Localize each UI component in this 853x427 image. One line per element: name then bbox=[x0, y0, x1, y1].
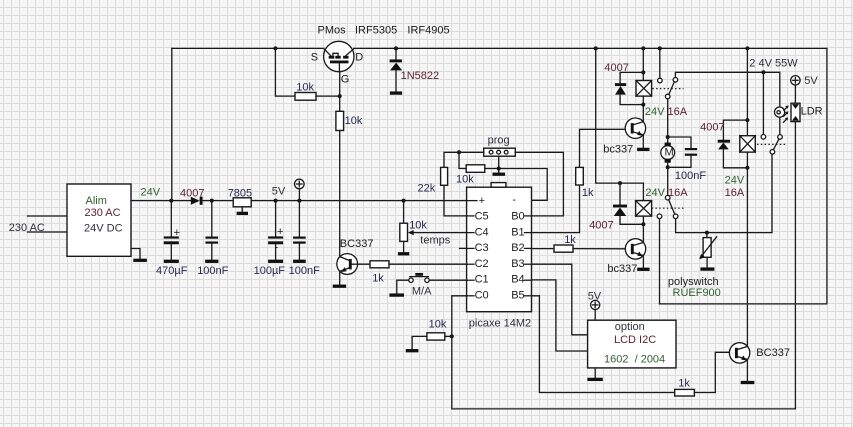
svg-text:BC337: BC337 bbox=[340, 238, 374, 250]
node relay2 rail junction bbox=[745, 46, 749, 50]
node coil1 bottom junction bbox=[641, 103, 645, 107]
node 4007 relay1 branch bbox=[641, 70, 645, 74]
svg-text:Alim: Alim bbox=[86, 195, 107, 207]
wire B5 to 1k bottom bbox=[532, 296, 675, 393]
svg-text:-: - bbox=[512, 194, 516, 206]
svg-text:5V: 5V bbox=[588, 290, 602, 302]
wire pin stubs inside picaxe bbox=[467, 215, 474, 217]
svg-text:IRF4905: IRF4905 bbox=[407, 25, 449, 37]
wire rail down to coil2 bbox=[746, 48, 748, 135]
wire 230AC input bottom bbox=[28, 231, 68, 233]
node lamp branch bbox=[761, 70, 765, 74]
svg-text:C5: C5 bbox=[475, 211, 489, 223]
svg-text:temps: temps bbox=[420, 234, 450, 246]
svg-text:5V: 5V bbox=[272, 186, 286, 198]
svg-text:24V: 24V bbox=[725, 174, 745, 186]
wire lamp feed corner bbox=[779, 72, 781, 107]
svg-text:S: S bbox=[311, 51, 318, 63]
wire B2 to 1k bbox=[532, 248, 555, 250]
relay K1 coil bbox=[636, 81, 652, 97]
relay K2 coil bbox=[740, 136, 756, 152]
svg-text:10k: 10k bbox=[456, 173, 474, 185]
svg-text:10k: 10k bbox=[296, 82, 314, 94]
resistor 10k gate pulldown vertical bbox=[336, 111, 344, 130]
resistor 10k serial-in bbox=[466, 165, 485, 173]
node motor top bbox=[666, 135, 670, 139]
wire prog middle pin ground stub bbox=[498, 156, 500, 172]
svg-text:RUEF900: RUEF900 bbox=[673, 287, 721, 299]
svg-text:+: + bbox=[174, 227, 180, 239]
wire relay3 NO down and right to relay2 pole bbox=[676, 154, 772, 233]
capacitor C 100uF bbox=[275, 201, 277, 237]
node coil2 bottom junction bbox=[745, 166, 749, 170]
wire 10k to minus pin bbox=[485, 169, 547, 201]
wire M/A left to ground bbox=[397, 280, 409, 293]
svg-text:D: D bbox=[355, 51, 363, 63]
wire 1k to BC337 no3 base bbox=[694, 352, 729, 392]
svg-text:10k: 10k bbox=[429, 318, 447, 330]
svg-text:bc337: bc337 bbox=[607, 263, 637, 275]
wire BC337 no3 emitter ground bbox=[746, 360, 748, 381]
ground BC337 emitter bbox=[333, 285, 346, 288]
wire prog left pin to 22k bbox=[444, 152, 484, 167]
svg-text:IRF5305: IRF5305 bbox=[355, 25, 397, 37]
wire B4 to LCD bbox=[532, 280, 588, 351]
Alim power supply box bbox=[67, 184, 131, 256]
wire 1k to bc337 no2 base bbox=[573, 248, 625, 250]
svg-text:C3: C3 bbox=[475, 242, 489, 254]
ground polyswitch bbox=[700, 267, 714, 270]
wire rail to relay1 contact A bbox=[659, 48, 661, 78]
ground pot bbox=[398, 252, 409, 255]
transistor BC337 no3 bbox=[729, 343, 749, 363]
wire 10k to gate node bbox=[316, 95, 340, 97]
svg-text:1k: 1k bbox=[372, 273, 384, 285]
svg-text:LDR: LDR bbox=[801, 105, 823, 117]
svg-text:C0: C0 bbox=[475, 289, 489, 301]
wire lamp to relay2 NO bbox=[779, 117, 781, 134]
node 5V supply symbol near 7805 bbox=[298, 189, 300, 201]
svg-text:1k: 1k bbox=[678, 377, 690, 389]
resistor 1k BC337 no3 bbox=[675, 389, 695, 396]
node 1N5822 junction on rail bbox=[394, 46, 398, 50]
svg-text:B5: B5 bbox=[511, 289, 524, 301]
resistor 1k relay3 driver bbox=[554, 245, 573, 252]
wire 24V rail from Alim to 4007 bbox=[131, 200, 191, 202]
svg-text:G: G bbox=[341, 73, 350, 85]
wire M/A right to picaxe C1 bbox=[429, 279, 466, 281]
wire BC337 emitter to ground bbox=[339, 271, 341, 284]
IC LCD I2C option box bbox=[588, 320, 676, 368]
svg-text:24V 16A: 24V 16A bbox=[645, 106, 688, 118]
ground bc337 no1 bbox=[637, 148, 649, 151]
node 4007 relay3 branch bbox=[618, 181, 622, 185]
wire top rail PMOS drain to right corner bbox=[354, 47, 827, 49]
wire rail 4007 to 7805 bbox=[203, 200, 234, 202]
relay K2 switch bbox=[761, 135, 766, 140]
ground 100uF bbox=[268, 260, 283, 263]
svg-text:M: M bbox=[665, 147, 674, 159]
diode 4007 relay3 bbox=[619, 183, 621, 204]
ground 100nF1 bbox=[205, 260, 218, 263]
wire relay1 NO contact up right bbox=[675, 72, 779, 77]
wire right edge drop bbox=[660, 48, 827, 304]
svg-text:option: option bbox=[615, 321, 645, 333]
ground 470uF bbox=[164, 260, 179, 263]
ground 7805 bbox=[237, 212, 248, 215]
transistor bc337 no1 bbox=[625, 118, 645, 138]
node gate junction bbox=[338, 94, 342, 98]
wire rail down to relay3 bbox=[596, 48, 644, 200]
wire PMOS gate to node bbox=[339, 72, 341, 96]
svg-text:4007: 4007 bbox=[180, 188, 204, 200]
wire 7805 ground stub bbox=[241, 207, 243, 212]
svg-text:C1: C1 bbox=[475, 274, 489, 286]
svg-text:1k: 1k bbox=[582, 187, 594, 199]
node junction 100uF bbox=[274, 199, 278, 203]
svg-text:4007: 4007 bbox=[589, 220, 613, 232]
capacitor 100nF motor bbox=[668, 137, 691, 148]
ground M/A bbox=[389, 293, 404, 296]
transistor PMos U1 bbox=[324, 41, 354, 71]
svg-text:100nF: 100nF bbox=[675, 170, 706, 182]
capacitor C 470uF bbox=[170, 201, 172, 237]
wire prog right pin to B0 bbox=[515, 152, 563, 216]
svg-text:B3: B3 bbox=[511, 258, 524, 270]
node junction 24V riser / 470uF bbox=[169, 199, 173, 203]
diode 4007 series bbox=[191, 197, 200, 205]
svg-text:2 4V 55W: 2 4V 55W bbox=[749, 58, 798, 70]
ground Alim bbox=[133, 259, 147, 262]
node polyswitch junction bbox=[705, 231, 709, 235]
diode 4007 relay2 bbox=[723, 120, 747, 140]
svg-text:16A: 16A bbox=[725, 187, 745, 199]
relay K3 coil bbox=[636, 201, 652, 217]
polyswitch RUEF900 bbox=[706, 233, 708, 238]
transistor bc337 no2 bbox=[625, 239, 645, 259]
ground divider bbox=[406, 349, 419, 352]
wire BC337 base to 1k bbox=[352, 263, 371, 265]
svg-text:100µF: 100µF bbox=[254, 265, 286, 277]
switch M/A pushbutton bbox=[409, 274, 429, 282]
wire relay1 pole down to motor bbox=[667, 99, 669, 137]
capacitor C 100nF first bbox=[211, 201, 213, 237]
wire 5V to LCD box bbox=[594, 310, 596, 321]
resistor 10k gate-source horizontal bbox=[295, 93, 316, 101]
wire to relay2 contact A bbox=[762, 72, 764, 134]
svg-text:4007: 4007 bbox=[700, 122, 724, 134]
transistor BC337 gate driver (mirrored) bbox=[337, 254, 358, 275]
svg-text:prog: prog bbox=[488, 135, 510, 147]
wire bc337 no2 emitter ground bbox=[642, 255, 644, 267]
svg-text:picaxe 14M2: picaxe 14M2 bbox=[469, 317, 531, 329]
node prog 10k junction bbox=[457, 150, 461, 154]
svg-text:B0: B0 bbox=[511, 211, 524, 223]
wire coil3 to bc337 no2 collector bbox=[642, 224, 644, 242]
ground prog bbox=[493, 173, 506, 176]
wire gate net down to BC337 collector bbox=[339, 131, 341, 257]
node coil3 bottom junction bbox=[641, 222, 645, 226]
svg-text:22k: 22k bbox=[418, 182, 436, 194]
capacitor C 100nF second bbox=[298, 201, 300, 237]
svg-text:B1: B1 bbox=[511, 226, 524, 238]
wire gate node to 10k vertical bbox=[339, 96, 341, 111]
wire bc337 no1 emitter ground bbox=[642, 135, 644, 148]
node junction 100nF2 / 5V symbol bbox=[297, 199, 301, 203]
svg-text:C4: C4 bbox=[475, 226, 489, 238]
wire C0 to LDR divider and bottom rail bbox=[452, 122, 796, 409]
resistor 1k relay1 driver bbox=[576, 167, 584, 185]
svg-text:-: - bbox=[275, 241, 279, 253]
wire 24V riser to top rail bbox=[171, 48, 173, 200]
svg-text:bc337: bc337 bbox=[603, 143, 633, 155]
LDR photoresistor bbox=[791, 103, 800, 121]
ground 100nF2 bbox=[293, 260, 306, 263]
svg-text:24V DC: 24V DC bbox=[84, 223, 123, 235]
wire coil3 bottom bbox=[642, 216, 644, 224]
wire 1k to picaxe C2 bbox=[389, 263, 467, 265]
resistor 22k serial bbox=[441, 167, 448, 185]
node junction prog ground / minus wire bbox=[497, 167, 501, 171]
resistor 10k LDR divider bbox=[445, 335, 452, 337]
node 5V rail pot junction bbox=[402, 199, 406, 203]
node 5V symbol top right bbox=[791, 76, 800, 85]
wire 5V to LDR bbox=[794, 85, 796, 103]
relay K3 switch bbox=[665, 195, 670, 200]
svg-text:10k: 10k bbox=[345, 115, 363, 127]
svg-text:B2: B2 bbox=[511, 242, 524, 254]
wire junction down to 10k bbox=[459, 152, 466, 168]
svg-text:230 AC: 230 AC bbox=[9, 222, 45, 234]
svg-text:M/A: M/A bbox=[412, 285, 432, 297]
node 4007 relay2 branch bbox=[745, 118, 749, 122]
IC picaxe 14M2 bbox=[467, 187, 532, 312]
svg-text:B4: B4 bbox=[511, 274, 524, 286]
svg-text:100nF: 100nF bbox=[289, 265, 320, 277]
svg-text:24V: 24V bbox=[141, 187, 161, 199]
svg-text:5V: 5V bbox=[804, 75, 818, 87]
ground bc337 no2 bbox=[637, 268, 649, 271]
node coil1 rail junction bbox=[641, 46, 645, 50]
svg-text:LCD I2C: LCD I2C bbox=[614, 334, 656, 346]
diode 1N5822 flyback bbox=[395, 48, 397, 59]
node top rail relay3 feed bbox=[594, 46, 598, 50]
wire pot wiper to picaxe C4 bbox=[411, 232, 467, 234]
potentiometer 10k temps bbox=[403, 201, 405, 224]
wire C3 stub bbox=[460, 247, 467, 249]
wire 10k divider to ground bbox=[412, 336, 427, 349]
lamp 24V 55W bbox=[775, 105, 789, 122]
wire B3 to LCD bbox=[532, 264, 588, 335]
wire 22k down to C5 bbox=[444, 185, 467, 216]
node divider junction bbox=[450, 334, 454, 338]
svg-text:100nF: 100nF bbox=[197, 265, 228, 277]
ground 1N5822 bbox=[390, 91, 402, 94]
svg-text:+: + bbox=[479, 195, 485, 207]
svg-text:7805: 7805 bbox=[228, 188, 252, 200]
wire relay3 NC down to 24V return bbox=[659, 219, 661, 304]
svg-text:1k: 1k bbox=[564, 234, 576, 246]
motor M bbox=[661, 137, 675, 167]
connector prog 3-pin bbox=[484, 148, 516, 156]
wire 5V rail 7805 to picaxe plus pin bbox=[251, 200, 466, 202]
svg-text:470µF: 470µF bbox=[156, 265, 188, 277]
node relay1 common rail junction bbox=[658, 46, 662, 50]
svg-text:10k: 10k bbox=[409, 219, 427, 231]
wire gate branch from top rail bbox=[273, 46, 277, 50]
wire Alim ground stub bbox=[131, 249, 140, 259]
ground BC337 no3 bbox=[741, 381, 755, 384]
svg-text:PMos: PMos bbox=[318, 25, 347, 37]
node motor bottom bbox=[666, 165, 670, 169]
svg-text:230 AC: 230 AC bbox=[85, 207, 121, 219]
wire rail to coil1 bbox=[642, 48, 644, 80]
svg-text:1602 / 2004: 1602 / 2004 bbox=[604, 353, 665, 365]
wire coil1 bottom to bc337 no1 bbox=[642, 96, 644, 122]
wire LCD ground stub bbox=[594, 368, 596, 378]
wire coil2 down to BC337 no3 collector bbox=[746, 152, 748, 346]
regulator 7805 bbox=[233, 198, 251, 207]
diode 4007 relay1 bbox=[620, 72, 643, 83]
wire top 24V rail to PMOS source bbox=[172, 47, 324, 49]
svg-text:4007: 4007 bbox=[604, 62, 628, 74]
resistor 1k base C2 bbox=[370, 261, 389, 268]
svg-text:C2: C2 bbox=[475, 258, 489, 270]
svg-text:+: + bbox=[277, 226, 283, 238]
svg-text:BC337: BC337 bbox=[756, 347, 790, 359]
wire motor to relay3 common bbox=[667, 167, 669, 195]
node 5V symbol LCD bbox=[591, 300, 600, 309]
node junction 100nF1 bbox=[210, 199, 214, 203]
svg-text:1N5822: 1N5822 bbox=[401, 70, 440, 82]
wire 230AC input top bbox=[28, 215, 68, 217]
relay K1 switch bbox=[658, 78, 663, 83]
wire B1 to 1k riser bbox=[532, 185, 580, 233]
wire 1k up and to bc337 no1 base bbox=[580, 129, 626, 167]
ground LCD bbox=[587, 378, 602, 381]
